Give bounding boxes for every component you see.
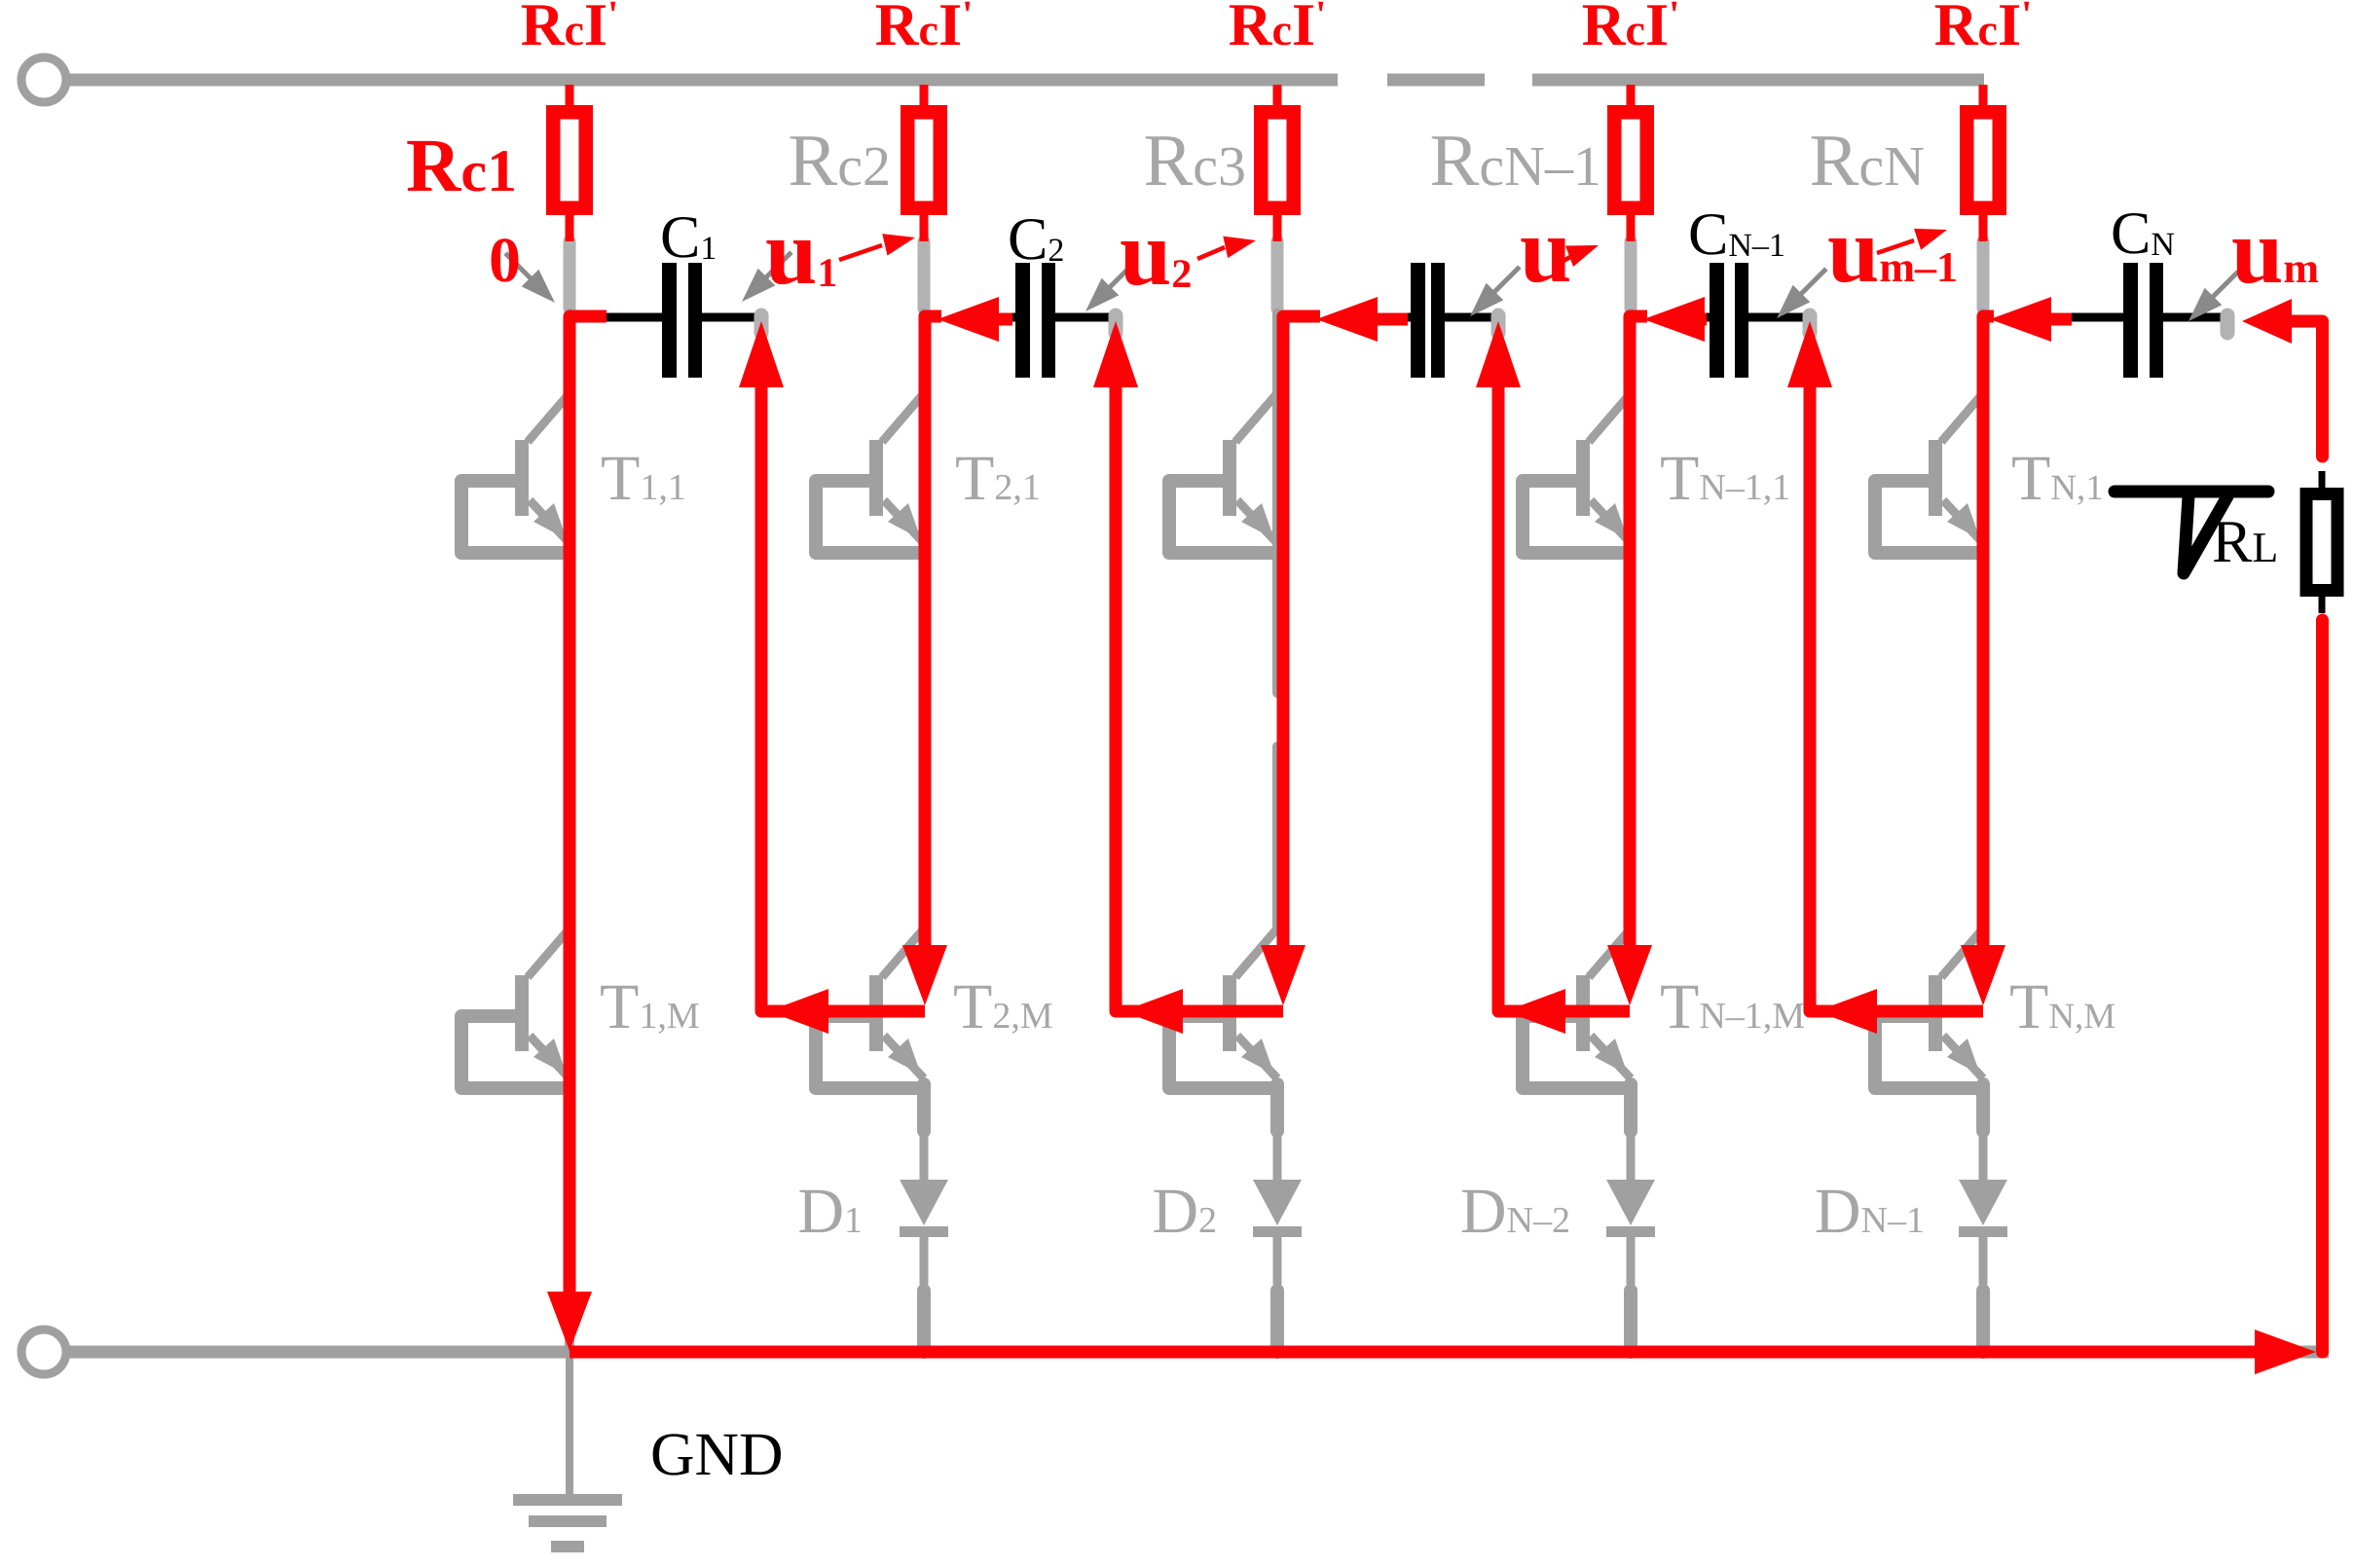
wire: column 1 vertical gray line (dashed mid-section) [565,313,574,927]
wire: red path column 1 node-0 down to ground bus [570,316,607,1295]
svg-text:T1,1: T1,1 [601,443,686,514]
transistor T2,M [816,929,924,1088]
diode DN-1 [1959,1084,2007,1352]
wire: red down path column 3 [1283,316,1320,946]
transistor col3 upper [1169,393,1277,553]
svg-text:RcI': RcI' [1934,0,2032,58]
wire: column 2 vertical gray line (dashed mid-section) [919,313,929,927]
wire: column 3 gray lead below resistor Rc3 [1271,241,1284,309]
transistor TN,1 [1875,393,1983,553]
svg-text:RcI': RcI' [1582,0,1679,58]
arrow: red arrow into C3 left lead [1316,297,1408,342]
svg-text:DN–1: DN–1 [1815,1176,1925,1247]
node: right terminal of C2 [1109,315,1123,333]
svg-text:TN,1: TN,1 [2011,443,2104,514]
arrow: red left arrow on return connector (column 2) [768,989,828,1034]
node: right terminal of C1 [754,315,769,333]
svg-text:u2: u2 [1120,201,1192,305]
wire: red right branch vertical (RL branch) [2292,321,2323,1352]
svg-text:GND: GND [650,1420,784,1488]
transistor T1,M [461,929,570,1088]
arrow: red up arrow into C2 right node [1093,321,1138,387]
transistor T1,1 [461,393,570,553]
symbol: square-root style mark at RL [2115,492,2268,573]
svg-text:RcN–1: RcN–1 [1430,120,1601,201]
node: right terminal of C3 [1491,315,1506,333]
wire: red return connector and up line to CN-1 right node [1810,385,1983,1011]
svg-text:RcI': RcI' [1229,0,1326,58]
arrow: red annotation arrow u2 -> column 3 node [1197,237,1256,259]
wire: red down path column 2 [925,316,941,946]
arrow: gray annotation arrow (node 0) [505,253,555,303]
diode D2 [1253,1084,1302,1352]
resistor Rc2 (red) [907,85,940,241]
capacitor CN-1 [1704,263,1810,378]
capacitor C3 [1405,263,1498,378]
svg-text:CN: CN [2111,201,2175,267]
wire: top horizontal supply bus (gray, with dashed break) [67,74,1984,87]
wire: red return connector and up line to C3 right node [1498,385,1630,1011]
arrow: gray annotation arrow (u2 ref) [1085,262,1135,311]
transistor T2,1 [816,393,924,553]
node: right terminal of CN-1 [1803,315,1818,333]
svg-text:u: u [1520,198,1571,302]
arrow: red up arrow into C1 right node [739,321,784,387]
capacitor C1 [607,263,761,378]
arrow: red arrow into C4 left lead [1643,297,1707,342]
arrow: red down arrow above T2,M [902,945,947,1005]
wire: red ground-bus current path [570,1346,2255,1359]
wire: column 5 vertical gray line (dashed mid-section) [1978,313,1988,927]
capacitor C2 [1010,263,1116,378]
svg-text:u1: u1 [765,200,837,304]
svg-text:Rc2: Rc2 [789,120,891,201]
arrow: red annotation arrow u -> column 4 node [1559,245,1599,267]
node: right terminal of CN [2221,315,2235,333]
ground symbol GND [513,1358,622,1552]
transistor TN-1,1 [1523,393,1631,553]
svg-text:um: um [2231,199,2319,303]
svg-text:D2: D2 [1152,1176,1217,1247]
terminal: top-left input terminal circle [21,57,66,102]
wire: column 4 gray lead below resistor Rc4 [1625,241,1637,309]
arrow: red arrow tip at ground bus (column 1) [547,1292,592,1351]
arrow: red annotation arrow um-1 -> column 5 node [1877,229,1947,253]
wire: column 5 gray lead below resistor Rc5 [1977,241,1990,309]
arrow: gray annotation arrow (um-1 ref) [1777,269,1826,318]
svg-text:TN–1,1: TN–1,1 [1660,443,1790,514]
svg-text:T1,M: T1,M [600,971,700,1042]
arrow: red left arrow on return connector (column 4) [1505,989,1565,1034]
arrow: red up arrow into C3 right node [1476,321,1521,387]
svg-text:DN–2: DN–2 [1460,1176,1570,1247]
svg-text:T2,1: T2,1 [955,443,1041,514]
arrow: red down arrow above T3,M [1261,945,1306,1005]
arrow: red down arrow above T4,M [1607,945,1652,1005]
svg-text:RcI': RcI' [875,0,973,58]
resistor RL (load, black) [2306,471,2337,613]
svg-text:RcI': RcI' [521,0,618,58]
svg-text:0: 0 [489,225,521,296]
svg-text:Rc3: Rc3 [1144,120,1246,201]
terminal: bottom-left ground-side terminal circle [21,1330,66,1374]
wire: bottom ground bus (gray part) [67,1346,2329,1359]
arrow: gray annotation arrow (um ref) [2188,272,2238,321]
svg-text:Rc1: Rc1 [406,123,517,207]
wire: column 4 vertical gray line (dashed mid-section) [1626,313,1636,927]
svg-text:T2,M: T2,M [953,971,1053,1042]
wire: red down path column 5 [1983,316,1994,946]
arrow: gray annotation arrow (u1 ref) [742,252,791,302]
svg-text:RL: RL [2212,509,2278,575]
wire: red return connector and up line to C2 right node [1116,385,1283,1011]
arrow: red left arrow on return connector (column 5) [1817,989,1877,1034]
capacitor CN [2069,263,2227,378]
svg-text:TN,M: TN,M [2009,971,2115,1042]
wire: column 1 gray line below T1,M to ground bus [565,1088,574,1352]
diode DN-2 [1606,1084,1655,1352]
wire: column 3 vertical gray line (dashed mid-section) [1272,313,1282,927]
transistor TN-1,M [1523,929,1631,1088]
wire: column 1 gray lead below resistor Rc1 [564,241,576,309]
resistor RcN (red) [1967,85,2000,241]
resistor Rc1 (red) [553,85,586,241]
transistor TN,M [1875,929,1983,1088]
diode D1 [900,1084,948,1352]
resistor Rc3 (red) [1261,85,1294,241]
wire: red down path column 4 [1630,316,1647,946]
transistor col3 lower [1169,929,1277,1088]
arrow: red left arrow on return connector (column 3) [1122,989,1183,1034]
arrow: red arrow into CN right lead [2242,299,2292,344]
svg-text:D1: D1 [797,1176,863,1247]
svg-text:RcN: RcN [1810,120,1925,201]
arrow: red arrow into C2 left lead [938,297,1012,342]
arrow: red arrow into C5 left lead [1990,297,2072,342]
resistor RcN-1 (red) [1614,85,1647,241]
arrow: red annotation arrow u1 -> column 2 node [839,234,915,260]
svg-text:um–1: um–1 [1827,198,1958,302]
wire: column 2 gray lead below resistor Rc2 [918,241,931,309]
svg-text:CN–1: CN–1 [1688,201,1785,268]
arrow: red up arrow into CN-1 right node [1787,321,1832,387]
arrow: gray annotation arrow (u ref) [1470,267,1520,316]
arrow: current arrow on ground bus pointing right [2255,1330,2316,1374]
svg-text:C2: C2 [1008,206,1064,273]
svg-text:TN–1,M: TN–1,M [1660,971,1805,1042]
svg-text:C1: C1 [660,204,717,271]
wire: red return connector and up line to C1 right node [761,385,925,1011]
arrow: red down arrow above T5,M [1961,945,2005,1005]
